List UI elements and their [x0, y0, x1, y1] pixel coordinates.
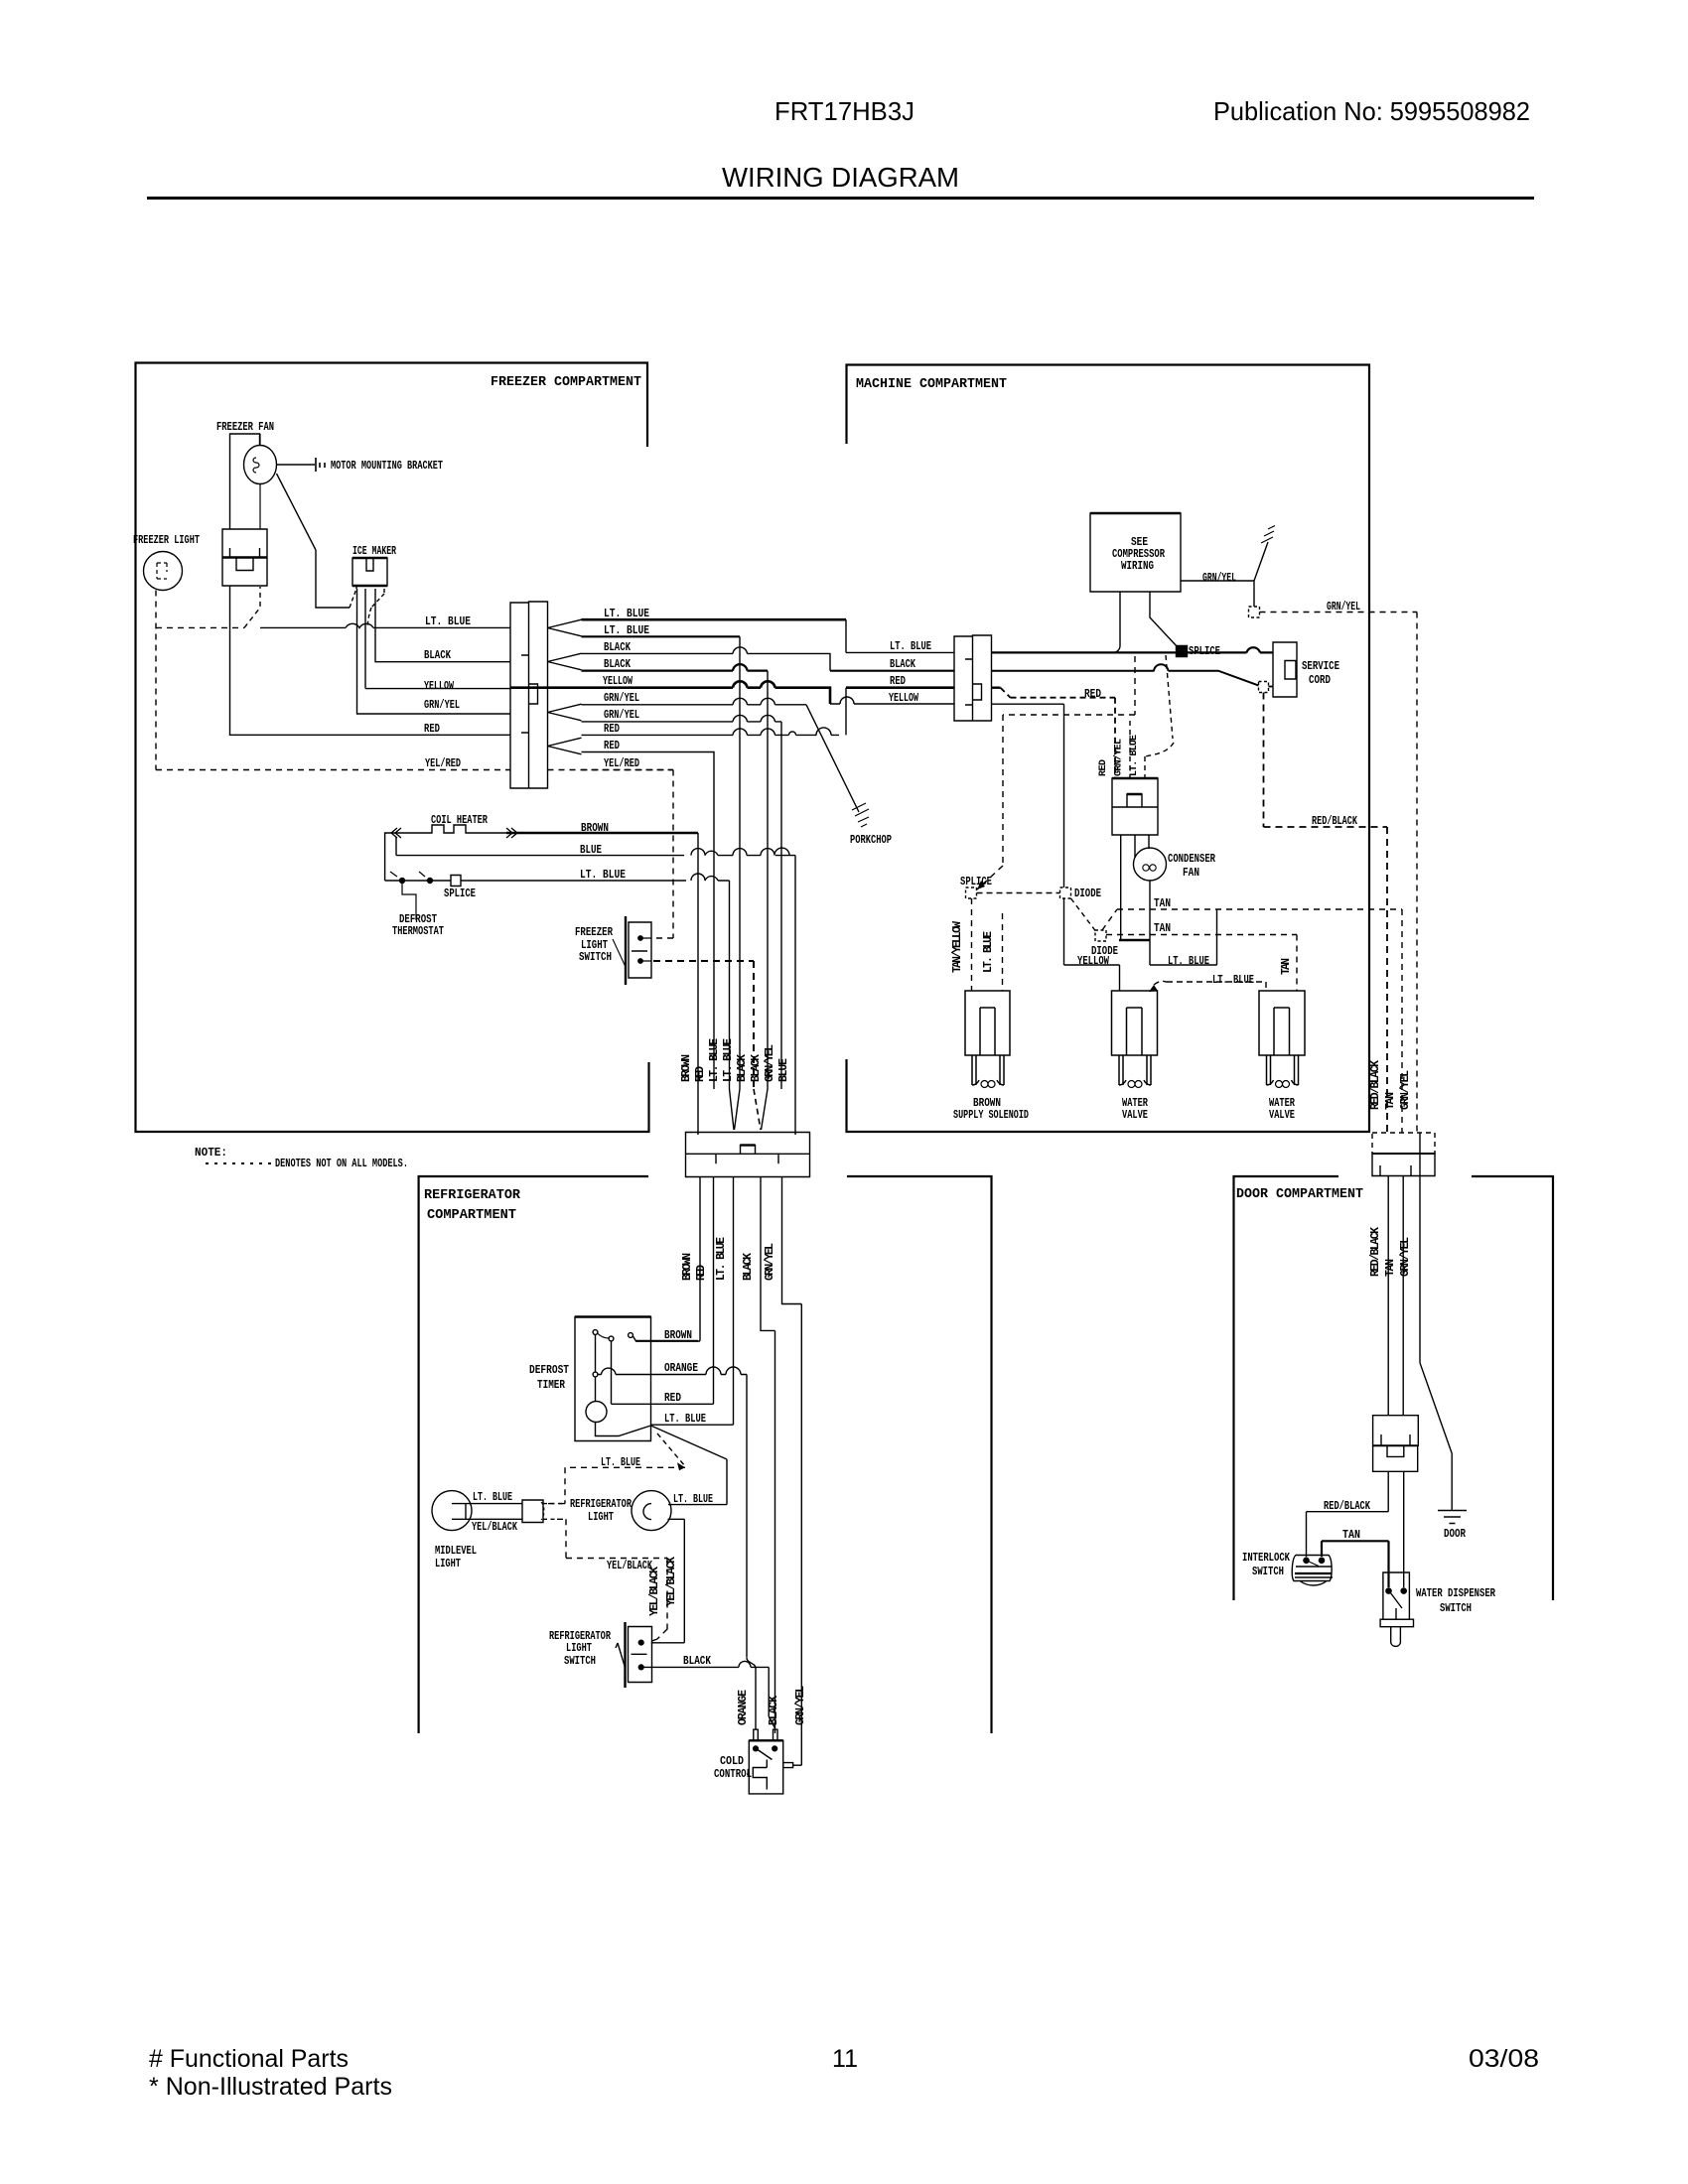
svg-text:TAN: TAN — [1384, 1259, 1397, 1277]
motor mounting bracket lead — [277, 464, 316, 466]
svg-text:DIODE: DIODE — [1074, 887, 1101, 900]
water valve 1 (brown supply solenoid) — [965, 991, 1010, 1085]
svg-text:03/08: 03/08 — [1469, 2045, 1539, 2073]
svg-text:TIMER: TIMER — [537, 1379, 565, 1392]
dispenser pins — [1386, 1588, 1391, 1593]
svg-text:CONDENSER: CONDENSER — [1168, 853, 1215, 866]
diode 2 dashed square — [1095, 930, 1106, 941]
freezer light bulb — [144, 552, 183, 591]
midlevel light — [432, 1491, 472, 1531]
wire red dashed jog — [992, 687, 1001, 689]
tan horizontal from interlock — [1322, 1541, 1389, 1587]
motor mounting bracket symbol — [316, 458, 325, 472]
dashed diagonal diode1 to diode2 — [1071, 898, 1096, 931]
wire lt.blue 1 row — [582, 618, 847, 621]
switch pointer — [616, 1643, 625, 1667]
freezer fan motor circle — [244, 446, 277, 484]
svg-text:CORD: CORD — [1309, 674, 1331, 687]
svg-text:BLACK: BLACK — [604, 658, 631, 671]
svg-text:LT. BLUE: LT. BLUE — [1129, 735, 1140, 776]
svg-text:RED/BLACK: RED/BLACK — [1369, 1227, 1382, 1277]
svg-text:RED: RED — [890, 675, 906, 688]
svg-text:YEL/BLACK: YEL/BLACK — [472, 1521, 517, 1534]
yel/black solid from refr light — [651, 1519, 685, 1643]
svg-text:GRN/YEL: GRN/YEL — [764, 1243, 776, 1281]
svg-text:WIRING DIAGRAM: WIRING DIAGRAM — [722, 162, 959, 193]
wire red 2 row — [582, 752, 715, 1090]
dashed row splice to diode — [977, 892, 1060, 894]
defrost thermostat contacts — [400, 879, 405, 884]
svg-text:GRN/YEL: GRN/YEL — [764, 1044, 776, 1082]
fanout arrows grn pair — [548, 704, 582, 721]
wire yellow to machine connector — [830, 697, 954, 704]
water valve 3 — [1259, 991, 1305, 1085]
cold control pins stubs — [754, 1729, 777, 1740]
svg-text:GRN/YEL: GRN/YEL — [1113, 739, 1125, 776]
svg-text:YELLOW: YELLOW — [889, 692, 918, 705]
svg-text:TAN: TAN — [1384, 1092, 1397, 1110]
svg-text:LT. BLUE: LT. BLUE — [664, 1413, 706, 1426]
freezer fan coil — [253, 458, 259, 473]
refrigerator compartment border left — [419, 1176, 648, 1733]
svg-text:GRN/YEL: GRN/YEL — [1327, 601, 1360, 614]
water valve 2 — [1112, 991, 1158, 1085]
svg-text:FREEZER: FREEZER — [575, 926, 613, 939]
svg-text:REFRIGERATOR: REFRIGERATOR — [570, 1498, 632, 1511]
relay overload box — [1112, 778, 1158, 835]
wire black to splice2 — [992, 664, 1260, 685]
condenser fan coil — [1143, 865, 1149, 871]
svg-text:RED: RED — [1084, 688, 1101, 701]
wire brown vertical — [697, 833, 699, 1135]
svg-text:BLACK: BLACK — [424, 649, 451, 662]
lt blue dashed row — [543, 1467, 685, 1503]
svg-text:BLACK: BLACK — [683, 1655, 711, 1668]
lt blue solid diagonal down — [651, 1426, 728, 1505]
refrigerator compartment border right — [847, 1176, 992, 1733]
fanout arrows mid pair — [548, 653, 582, 670]
svg-text:BLACK: BLACK — [742, 1253, 755, 1281]
svg-text:LT. BLUE: LT. BLUE — [604, 608, 649, 620]
red/black below connector — [1307, 1471, 1389, 1557]
svg-text:RED/BLACK: RED/BLACK — [1312, 815, 1357, 828]
svg-text:ORANGE: ORANGE — [664, 1362, 698, 1375]
svg-text:LIGHT: LIGHT — [566, 1642, 592, 1655]
timer motor circle — [586, 1402, 607, 1423]
timer contacts — [593, 1330, 598, 1335]
cold control box — [749, 1740, 782, 1794]
relay pins down — [1121, 835, 1149, 940]
wire yel/red dashed row left — [156, 769, 510, 771]
svg-text:DENOTES NOT ON ALL MODELS.: DENOTES NOT ON ALL MODELS. — [275, 1158, 408, 1170]
svg-text:GRN/YEL: GRN/YEL — [424, 699, 460, 712]
machine connector — [954, 635, 992, 721]
refrigerator light switch body — [629, 1627, 652, 1683]
svg-text:TAN: TAN — [1342, 1529, 1360, 1542]
wire yel/red dashed row right — [582, 769, 674, 771]
arrowhead at valve2 — [1149, 985, 1158, 992]
svg-text:RED: RED — [424, 723, 440, 736]
arrowhead into splice2 — [977, 881, 985, 889]
diode 1 dashed square — [1060, 887, 1071, 898]
orange from pin4 — [598, 1367, 747, 1658]
svg-text:MIDLEVEL: MIDLEVEL — [435, 1545, 477, 1558]
tan below connector — [1403, 1471, 1405, 1587]
wire yellow down to valves — [992, 704, 1120, 991]
wire lt blue row (defrost) — [385, 874, 730, 1089]
condenser fan circle — [1134, 848, 1167, 881]
svg-text:YELLOW: YELLOW — [603, 675, 633, 688]
lt blue dashed drop to valve1 — [1002, 913, 1004, 991]
svg-text:FREEZER COMPARTMENT: FREEZER COMPARTMENT — [491, 374, 641, 390]
svg-text:YEL/BLACK: YEL/BLACK — [607, 1560, 652, 1572]
coil heater element symbol — [407, 825, 506, 833]
wire lt.blue 2 row — [582, 635, 741, 637]
svg-text:PORKCHOP: PORKCHOP — [850, 834, 892, 847]
svg-text:RED: RED — [664, 1392, 681, 1405]
interlock pins — [1304, 1558, 1309, 1563]
svg-text:SERVICE: SERVICE — [1302, 660, 1339, 673]
freezer fan connector — [222, 529, 267, 586]
wire lt blue to service cord — [992, 647, 1274, 652]
svg-text:* Non-Illustrated Parts: * Non-Illustrated Parts — [149, 2073, 392, 2101]
chassis ground hash — [1261, 526, 1275, 544]
door compartment border — [1234, 1176, 1554, 1600]
ice maker pin 1 wire — [277, 474, 357, 608]
pointer line to switch — [613, 939, 626, 967]
svg-text:GRN/YEL: GRN/YEL — [1202, 572, 1236, 585]
splice 2 dashed square — [966, 887, 977, 898]
svg-text:Publication No: 5995508982: Publication No: 5995508982 — [1213, 96, 1530, 126]
svg-text:LIGHT: LIGHT — [588, 1511, 614, 1524]
svg-text:SPLICE: SPLICE — [444, 887, 476, 900]
switch blade dashed to fan connector — [244, 587, 260, 627]
wire black 1 row — [582, 647, 831, 671]
svg-text:RED: RED — [695, 1265, 708, 1281]
svg-text:BLACK: BLACK — [768, 1696, 780, 1725]
svg-text:RED: RED — [604, 740, 620, 752]
freezer compartment border — [136, 363, 649, 1133]
red to timer — [612, 1403, 714, 1405]
dispenser base plate — [1380, 1619, 1413, 1627]
svg-text:YELLOW: YELLOW — [424, 680, 454, 693]
dashed lt blue into relay — [1145, 655, 1174, 778]
svg-text:BLUE: BLUE — [580, 844, 602, 857]
dashed splice at service cord — [1259, 682, 1269, 693]
svg-text:REFRIGERATOR: REFRIGERATOR — [424, 1187, 521, 1203]
grn/yel to chassis — [1181, 542, 1268, 607]
in-door connector lower — [1373, 1445, 1418, 1471]
dispenser blade — [1390, 1592, 1402, 1619]
svg-text:DEFROST: DEFROST — [529, 1364, 569, 1377]
svg-text:LT. BLUE: LT. BLUE — [604, 624, 649, 637]
svg-text:BROWN: BROWN — [581, 822, 609, 835]
svg-text:LT. BLUE: LT. BLUE — [601, 1456, 640, 1469]
ice maker pin 4 dashed — [367, 589, 384, 625]
wire black 2 row — [582, 664, 769, 670]
lt blue dashed to valve3 — [1154, 981, 1266, 991]
wire red to machine connector — [846, 686, 954, 689]
svg-text:BLACK: BLACK — [736, 1054, 749, 1082]
yel/red dashed drop to switch top pin — [548, 770, 674, 939]
timer internal wires — [596, 1335, 651, 1436]
svg-text:BROWN: BROWN — [681, 1253, 694, 1281]
svg-text:GRN/YEL: GRN/YEL — [794, 1686, 807, 1725]
svg-text:DOOR: DOOR — [1444, 1528, 1466, 1541]
grn/yel into cold control — [793, 1764, 802, 1766]
svg-text:BROWN: BROWN — [680, 1054, 693, 1082]
black pair converge — [762, 1089, 769, 1130]
dashed grn/yel splice square — [1249, 607, 1260, 617]
wire grn/yel 1 row — [582, 698, 807, 704]
svg-text:LT. BLUE: LT. BLUE — [715, 1237, 728, 1281]
svg-text:LT. BLUE: LT. BLUE — [580, 869, 626, 882]
svg-text:GRN/YEL: GRN/YEL — [604, 692, 639, 705]
svg-text:WATER DISPENSER: WATER DISPENSER — [1416, 1587, 1495, 1600]
svg-text:BROWN: BROWN — [664, 1329, 692, 1342]
svg-text:LT. BLUE: LT. BLUE — [1212, 974, 1254, 987]
svg-text:YEL/RED: YEL/RED — [604, 757, 639, 770]
ice maker pin 2 wire to yellow row — [365, 589, 510, 689]
porkchop hash symbol — [852, 803, 869, 827]
compressor wiring box — [1090, 513, 1181, 592]
lower connector (freezer to refrigerator) — [686, 1133, 810, 1177]
black from switch — [643, 1661, 775, 1728]
svg-text:VALVE: VALVE — [1269, 1109, 1295, 1122]
svg-text:SUPPLY SOLENOID: SUPPLY SOLENOID — [953, 1109, 1029, 1122]
brown to timer pin — [633, 1335, 700, 1341]
svg-text:TAN: TAN — [1154, 897, 1171, 910]
svg-text:LIGHT: LIGHT — [435, 1558, 461, 1570]
water dispenser switch box — [1383, 1572, 1410, 1619]
svg-text:FREEZER FAN: FREEZER FAN — [216, 421, 274, 434]
defrost timer box — [575, 1317, 651, 1441]
fan bottom wire — [1150, 881, 1217, 965]
ice maker pin 1 dashed link — [350, 589, 356, 608]
svg-text:SPLICE: SPLICE — [960, 876, 992, 888]
machine compartment border — [847, 365, 1370, 1133]
svg-text:TAN: TAN — [1154, 922, 1171, 935]
wire grn/yel 2 row — [582, 715, 782, 1089]
wire fan connector left pin to RED row — [230, 586, 511, 735]
lt blue to timer — [651, 1424, 734, 1426]
svg-text:SWITCH: SWITCH — [579, 951, 612, 964]
svg-text:YEL/BLACK: YEL/BLACK — [665, 1557, 678, 1606]
note dotted sample — [206, 1162, 271, 1164]
svg-text:RED: RED — [604, 723, 620, 736]
splice square on lt blue — [451, 876, 461, 887]
tan dashed row 2 — [1106, 935, 1297, 992]
compressor left pin to lt blue — [1113, 592, 1120, 652]
svg-text:COLD: COLD — [720, 1755, 744, 1768]
svg-text:RED/BLACK: RED/BLACK — [1324, 1500, 1370, 1513]
svg-text:BLACK: BLACK — [890, 658, 915, 671]
in-door connector upper — [1373, 1416, 1419, 1446]
svg-text:LT. BLUE: LT. BLUE — [982, 931, 995, 973]
svg-text:DOOR COMPARTMENT: DOOR COMPARTMENT — [1236, 1186, 1363, 1202]
fanout arrows red pair — [548, 738, 582, 754]
door connector solid lower — [1372, 1154, 1435, 1176]
svg-text:RED: RED — [694, 1066, 707, 1082]
svg-text:BLACK: BLACK — [604, 641, 631, 654]
svg-text:GRN/YEL: GRN/YEL — [1399, 1237, 1412, 1277]
timer switch blade — [598, 1333, 610, 1338]
red/black dashed from service cord — [1264, 693, 1388, 1134]
porkchop diagonal — [806, 705, 859, 812]
svg-text:BLUE: BLUE — [777, 1058, 790, 1082]
freezer light switch plate — [625, 916, 627, 985]
svg-text:THERMOSTAT: THERMOSTAT — [392, 925, 444, 938]
svg-text:MACHINE COMPARTMENT: MACHINE COMPARTMENT — [856, 376, 1007, 392]
main harness connector (freezer/machine) — [510, 602, 548, 788]
svg-text:SWITCH: SWITCH — [1440, 1602, 1472, 1615]
cold control blade and bellows — [753, 1750, 772, 1790]
svg-text:FREEZER LIGHT: FREEZER LIGHT — [133, 534, 200, 547]
orange jog over black — [747, 1658, 756, 1730]
svg-text:VALVE: VALVE — [1122, 1109, 1148, 1122]
heater connector chevrons — [391, 828, 517, 838]
black dashed converge to connector — [754, 1089, 761, 1130]
title rule — [147, 197, 1534, 200]
svg-text:11: 11 — [832, 2045, 858, 2073]
compressor right pin diagonal to splice — [1150, 592, 1178, 647]
lt blue row hops over pins — [260, 623, 510, 627]
fan bottom bar — [1119, 939, 1150, 942]
wires below connector — [700, 1177, 801, 1766]
yel/black dashed path — [557, 1519, 667, 1642]
wire freezer light dashed drop — [155, 591, 157, 770]
wires through door connector — [1388, 1133, 1452, 1510]
svg-text:# Functional Parts: # Functional Parts — [149, 2045, 349, 2073]
ice maker body — [352, 558, 387, 586]
cold control contacts — [754, 1746, 759, 1751]
svg-text:LT. BLUE: LT. BLUE — [708, 1038, 721, 1082]
svg-text:BLACK: BLACK — [750, 1054, 763, 1082]
svg-text:FAN: FAN — [1183, 867, 1199, 880]
svg-text:LT. BLUE: LT. BLUE — [473, 1491, 512, 1504]
freezer light switch body — [629, 922, 651, 978]
wire lt.blue to machine connector — [846, 651, 954, 653]
freezer light switch pins — [638, 936, 642, 940]
svg-text:LT. BLUE: LT. BLUE — [425, 615, 471, 628]
svg-text:RED/BLACK: RED/BLACK — [1369, 1060, 1382, 1110]
midlevel light dashed pins — [543, 1504, 565, 1520]
wire black to machine connector — [830, 670, 954, 672]
wire yellow row thick — [510, 681, 830, 704]
cold control right stub — [783, 1763, 793, 1768]
service cord connector — [1273, 642, 1297, 697]
svg-text:YEL/RED: YEL/RED — [425, 757, 461, 770]
dashed grn/yel into relay — [1129, 721, 1131, 778]
svg-text:ICE MAKER: ICE MAKER — [352, 545, 396, 558]
wire freezer fan top bracket — [230, 434, 260, 529]
black dashed from switch bottom pin — [653, 961, 754, 1089]
lt blue pair converge — [730, 1089, 741, 1130]
splice square on lt blue — [1177, 646, 1188, 657]
dashed grn/yel row to right — [1260, 613, 1418, 1134]
svg-text:LT. BLUE: LT. BLUE — [890, 640, 931, 653]
svg-text:INTERLOCK: INTERLOCK — [1242, 1552, 1290, 1565]
svg-text:TAN: TAN — [1280, 958, 1293, 975]
svg-text:RED: RED — [1098, 759, 1109, 776]
svg-text:LT. BLUE: LT. BLUE — [673, 1493, 713, 1506]
switch pins — [638, 1640, 643, 1645]
svg-text:MOTOR MOUNTING BRACKET: MOTOR MOUNTING BRACKET — [331, 460, 443, 473]
dispenser stem — [1391, 1627, 1401, 1647]
svg-text:WIRING: WIRING — [1121, 560, 1154, 573]
arrowhead on dashed — [677, 1462, 685, 1470]
fanout arrows top pair — [548, 619, 582, 636]
heater circuit left loop — [385, 833, 407, 881]
svg-text:FRT17HB3J: FRT17HB3J — [774, 96, 914, 126]
dashed box around relay area — [977, 656, 1135, 889]
tan dashed row 1 — [1102, 909, 1402, 1133]
wire freezer light switch dashed branch — [156, 626, 244, 628]
door ground symbol — [1438, 1511, 1467, 1524]
dashed tan/yellow drop to valve1 — [971, 898, 973, 991]
wire blue row — [396, 837, 795, 1135]
svg-text:LT. BLUE: LT. BLUE — [1168, 955, 1209, 968]
ice maker pin 1 vertical to grn/yel row — [357, 589, 511, 714]
wire red 1 row — [582, 688, 847, 736]
svg-text:DIODE: DIODE — [1091, 945, 1118, 958]
svg-text:YEL/BLACK: YEL/BLACK — [648, 1567, 661, 1616]
midlevel light connector — [522, 1500, 543, 1523]
refrigerator light — [632, 1491, 671, 1531]
svg-text:GRN/YEL: GRN/YEL — [604, 709, 639, 722]
refrigerator light switch plate — [624, 1622, 626, 1688]
lt blue dashed diagonal — [657, 1433, 685, 1466]
svg-text:ORANGE: ORANGE — [737, 1690, 750, 1725]
svg-text:SWITCH: SWITCH — [564, 1655, 596, 1668]
svg-text:COMPARTMENT: COMPARTMENT — [427, 1207, 516, 1223]
wire brown row (thick) — [506, 832, 698, 835]
svg-text:SWITCH: SWITCH — [1252, 1566, 1284, 1578]
door connector dashed upper — [1372, 1133, 1435, 1154]
svg-text:NOTE:: NOTE: — [195, 1147, 227, 1160]
svg-text:TAN/YELLOW: TAN/YELLOW — [951, 921, 964, 973]
svg-text:GRN/YEL: GRN/YEL — [1399, 1070, 1412, 1110]
ice maker pin 3 wire to black row — [375, 589, 510, 662]
svg-text:LT. BLUE: LT. BLUE — [722, 1038, 735, 1082]
svg-text:CONTROL: CONTROL — [714, 1768, 752, 1781]
interlock switch body — [1292, 1556, 1333, 1586]
